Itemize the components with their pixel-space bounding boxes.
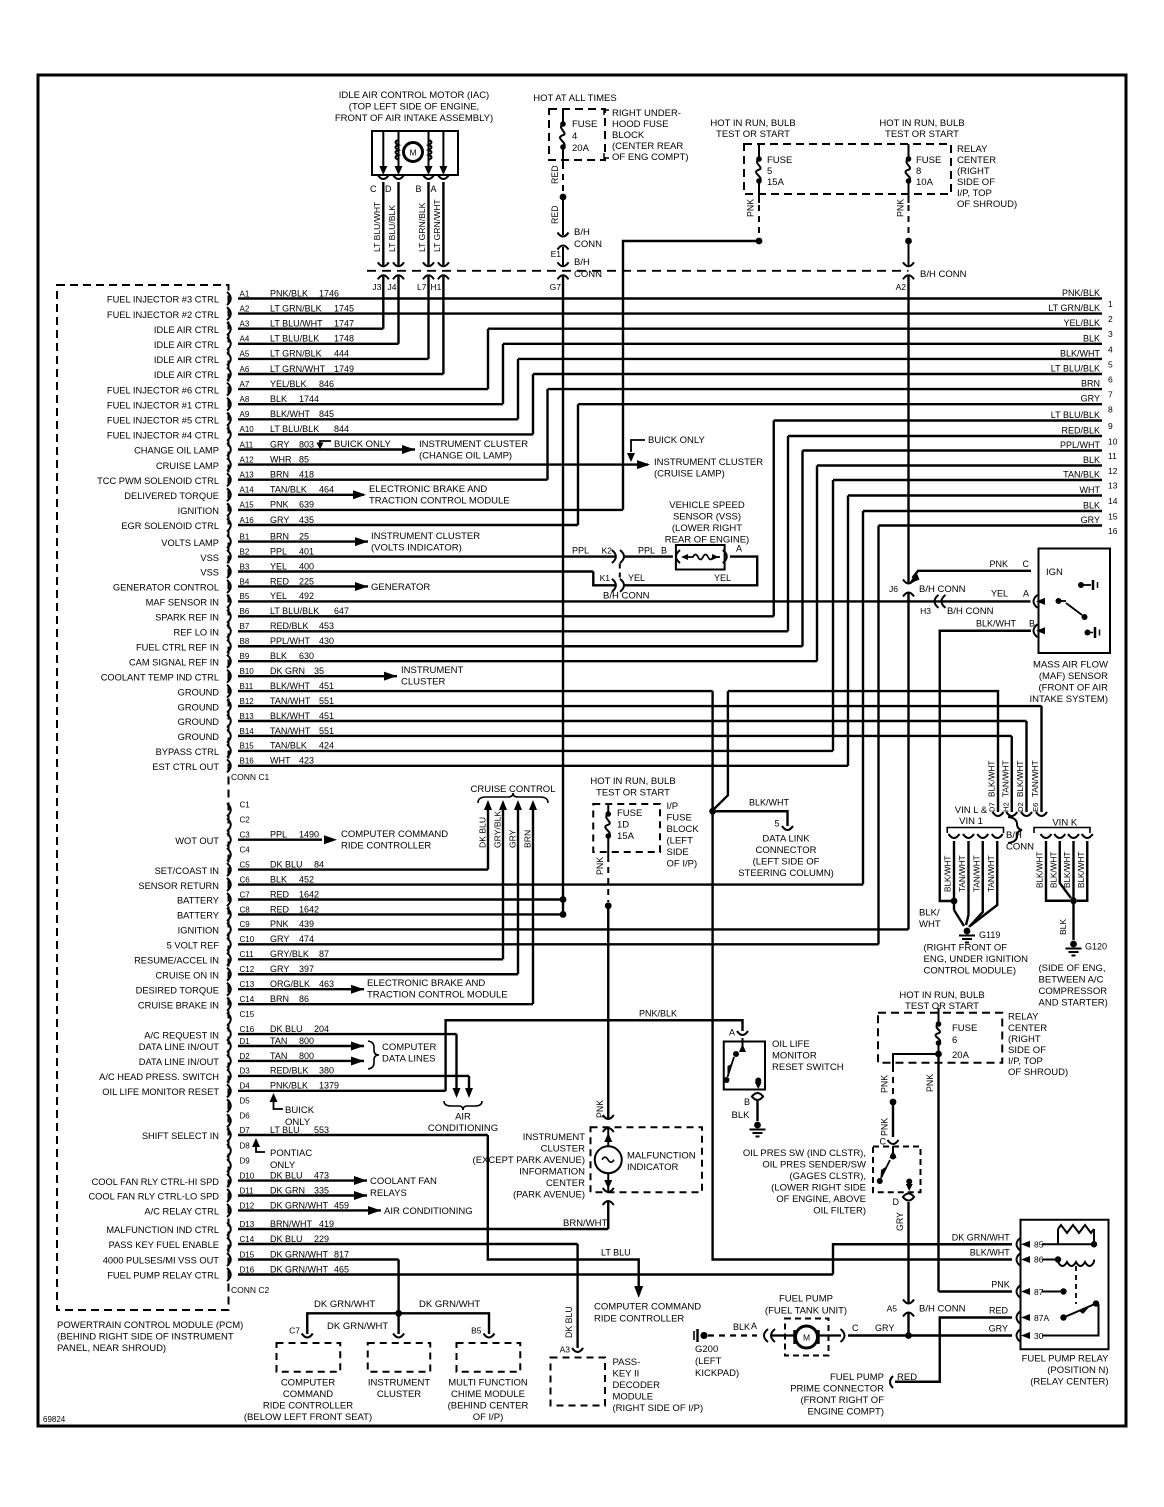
PCM pin B6 SPARK REF IN <box>227 610 231 623</box>
svg-text:BUICK ONLY: BUICK ONLY <box>334 439 392 450</box>
PCM pin B15 BYPASS CTRL <box>227 744 231 757</box>
svg-text:(RIGHT FRONT OF: (RIGHT FRONT OF <box>924 943 1008 954</box>
arrow ccrc C3 <box>324 835 337 844</box>
svg-text:A13: A13 <box>240 471 255 480</box>
svg-text:PASS KEY FUEL ENABLE: PASS KEY FUEL ENABLE <box>109 1240 219 1250</box>
pump input arcs <box>764 1329 768 1342</box>
svg-text:(TOP LEFT SIDE OF ENGINE,: (TOP LEFT SIDE OF ENGINE, <box>349 102 479 113</box>
svg-text:844: 844 <box>334 424 349 434</box>
svg-text:D11: D11 <box>240 1186 255 1195</box>
off-page wire 14 WHT <box>848 494 1102 496</box>
svg-text:M: M <box>803 1333 810 1343</box>
PCM pin A7 FUEL INJECTOR #6 CTRL <box>227 383 231 396</box>
pump output arc C <box>817 1334 841 1336</box>
svg-text:LT BLU/WHT: LT BLU/WHT <box>270 319 323 329</box>
riser A9 to line5 <box>517 359 519 419</box>
svg-text:I/P: I/P <box>667 801 679 812</box>
svg-text:551: 551 <box>319 726 334 736</box>
svg-text:OIL LIFE MONITOR RESET: OIL LIFE MONITOR RESET <box>102 1087 219 1097</box>
svg-text:GRY: GRY <box>270 439 289 449</box>
svg-text:(VOLTS INDICATOR): (VOLTS INDICATOR) <box>371 543 462 554</box>
svg-text:FUSE: FUSE <box>952 1023 977 1034</box>
junction dot fuse6 branch <box>890 1099 897 1106</box>
PCM pin D3 A/C HEAD PRESS. SWITCH <box>227 1069 231 1082</box>
svg-text:401: 401 <box>299 546 314 556</box>
svg-text:DK GRN/WHT: DK GRN/WHT <box>419 1299 480 1310</box>
svg-text:2: 2 <box>1108 314 1113 324</box>
svg-text:VSS: VSS <box>200 553 219 563</box>
svg-text:KICKPAD): KICKPAD) <box>695 1368 739 1379</box>
svg-text:PNK: PNK <box>270 919 289 929</box>
wire PNK fuse8 dashed <box>908 205 910 236</box>
svg-text:CONDITIONING: CONDITIONING <box>428 1123 498 1134</box>
svg-text:204: 204 <box>314 1024 329 1034</box>
svg-text:13: 13 <box>1108 481 1118 491</box>
svg-text:INFORMATION: INFORMATION <box>519 1167 585 1178</box>
PCM pin B7 REF LO IN <box>227 625 231 638</box>
svg-text:C11: C11 <box>240 950 255 959</box>
svg-text:FUSE: FUSE <box>767 155 792 166</box>
svg-text:BLK: BLK <box>1083 455 1100 465</box>
PCM pin D11 COOL FAN RLY CTRL-LO SPD <box>227 1189 231 1202</box>
svg-text:SPARK REF IN: SPARK REF IN <box>155 613 219 623</box>
PCM pin A2 FUEL INJECTOR #2 CTRL <box>227 307 231 320</box>
svg-text:C6: C6 <box>240 875 251 884</box>
PCM pin C4 n/c <box>227 848 231 861</box>
svg-text:1: 1 <box>1108 299 1113 309</box>
PCM pin C6 SENSOR RETURN <box>227 878 231 891</box>
malfunction bulb <box>595 1146 622 1173</box>
svg-text:(BEHIND CENTER: (BEHIND CENTER <box>448 1401 529 1412</box>
svg-text:C7: C7 <box>240 890 251 899</box>
svg-text:84: 84 <box>314 859 324 869</box>
svg-text:PNK/BLK: PNK/BLK <box>270 288 308 298</box>
wire YEL VSS loop <box>625 557 758 586</box>
svg-text:CRUISE ON IN: CRUISE ON IN <box>155 970 219 980</box>
svg-text:DK BLU: DK BLU <box>270 859 303 869</box>
svg-text:C4: C4 <box>240 845 251 854</box>
svg-text:DK BLU: DK BLU <box>270 1024 303 1034</box>
svg-text:AND STARTER): AND STARTER) <box>1039 998 1108 1009</box>
svg-text:IGNITION: IGNITION <box>178 506 219 516</box>
chime dashed box <box>457 1343 521 1372</box>
svg-text:(POSITION N): (POSITION N) <box>1047 1365 1108 1376</box>
svg-text:I/P, TOP: I/P, TOP <box>957 188 992 199</box>
svg-text:A/C REQUEST IN: A/C REQUEST IN <box>144 1030 219 1040</box>
svg-text:ORG/BLK: ORG/BLK <box>270 979 310 989</box>
svg-text:A: A <box>729 1028 735 1038</box>
svg-text:EGR SOLENOID CTRL: EGR SOLENOID CTRL <box>121 521 219 531</box>
ground oil life switch <box>754 1122 761 1129</box>
svg-text:INDICATOR: INDICATOR <box>627 1162 679 1173</box>
PCM pin B11 GROUND <box>227 685 231 698</box>
svg-text:69824: 69824 <box>43 1415 66 1424</box>
svg-text:B1: B1 <box>240 532 250 541</box>
svg-text:BLK/WHT: BLK/WHT <box>1077 852 1086 888</box>
G200 dot <box>700 1332 707 1339</box>
svg-text:TAN/BLK: TAN/BLK <box>1063 470 1100 480</box>
svg-text:BRN: BRN <box>270 994 289 1004</box>
svg-text:PNK: PNK <box>270 500 289 510</box>
PCM pin C7 BATTERY <box>227 893 231 906</box>
svg-text:MODULE: MODULE <box>613 1392 654 1403</box>
svg-text:FUEL INJECTOR #4 CTRL: FUEL INJECTOR #4 CTRL <box>107 431 219 441</box>
VSS coil symbol <box>686 555 720 560</box>
svg-text:FUSE: FUSE <box>916 155 941 166</box>
prime connector arc <box>890 1376 893 1388</box>
svg-text:SENSOR RETURN: SENSOR RETURN <box>138 881 219 891</box>
PCM pin D8 n/c <box>227 1144 231 1157</box>
svg-text:B/H: B/H <box>574 227 590 238</box>
svg-text:335: 335 <box>314 1185 329 1195</box>
junction dot DLC ground <box>709 808 716 815</box>
svg-text:EST CTRL OUT: EST CTRL OUT <box>152 762 219 772</box>
wire D16 to relay 85 <box>238 1244 1012 1274</box>
svg-text:35: 35 <box>314 666 324 676</box>
wire GRY oil pres down <box>907 1202 909 1303</box>
svg-text:BRN: BRN <box>270 470 289 480</box>
svg-text:LT GRN/BLK: LT GRN/BLK <box>1048 303 1100 313</box>
svg-text:PPL: PPL <box>638 546 655 556</box>
svg-text:1642: 1642 <box>299 904 319 914</box>
svg-text:D7: D7 <box>240 1126 251 1135</box>
wire C16 drop <box>455 1034 457 1088</box>
relay center dashed box <box>744 144 951 194</box>
svg-text:LT GRN/WHT: LT GRN/WHT <box>432 199 442 252</box>
svg-text:TAN/WHT: TAN/WHT <box>1001 760 1010 797</box>
svg-text:FUEL PUMP: FUEL PUMP <box>830 1372 884 1383</box>
svg-text:DK GRN/WHT: DK GRN/WHT <box>314 1299 375 1310</box>
svg-text:BLK/WHT: BLK/WHT <box>270 711 311 721</box>
svg-text:LT GRN/BLK: LT GRN/BLK <box>417 202 427 252</box>
oil life switch arm <box>742 1038 744 1052</box>
svg-text:TAN/WHT: TAN/WHT <box>270 696 311 706</box>
connector K1 break <box>612 579 616 592</box>
svg-text:492: 492 <box>299 591 314 601</box>
svg-text:TAN/BLK: TAN/BLK <box>270 485 307 495</box>
svg-text:845: 845 <box>319 409 334 419</box>
svg-text:(SIDE OF ENG,: (SIDE OF ENG, <box>1039 963 1106 974</box>
svg-text:4: 4 <box>1108 344 1113 354</box>
wire GRY pump to relay 30 <box>848 1334 1012 1336</box>
svg-text:(RIGHT SIDE OF I/P): (RIGHT SIDE OF I/P) <box>613 1403 704 1414</box>
svg-text:803: 803 <box>299 439 314 449</box>
svg-text:C3: C3 <box>240 831 251 840</box>
svg-text:GROUND: GROUND <box>178 687 220 697</box>
wire B14 to H2 <box>238 736 1012 812</box>
wire B11 drop diagonal <box>714 691 728 809</box>
MAF switch contacts <box>1056 598 1062 604</box>
svg-text:(RELAY CENTER): (RELAY CENTER) <box>1030 1377 1108 1388</box>
svg-text:HOT IN RUN, BULB: HOT IN RUN, BULB <box>879 118 964 129</box>
svg-text:B/H: B/H <box>1006 830 1022 841</box>
svg-text:IDLE AIR CTRL: IDLE AIR CTRL <box>154 340 219 350</box>
svg-text:PNK: PNK <box>880 1075 890 1093</box>
svg-text:PNK: PNK <box>989 559 1008 569</box>
svg-text:WHT: WHT <box>919 919 941 930</box>
svg-text:A: A <box>751 1321 757 1331</box>
svg-text:YEL: YEL <box>714 573 731 583</box>
svg-text:GRY: GRY <box>1081 394 1100 404</box>
PCM pin C8 BATTERY <box>227 908 231 921</box>
svg-text:RED: RED <box>550 165 560 184</box>
svg-text:A8: A8 <box>240 395 250 404</box>
malfunction wire arrows <box>607 1129 609 1146</box>
PCM pin B5 MAF SENSOR IN <box>227 595 231 608</box>
VIN1 group wire arcs and labels <box>949 834 960 838</box>
svg-text:INSTRUMENT: INSTRUMENT <box>523 1132 585 1143</box>
svg-text:CONN C1: CONN C1 <box>231 772 270 782</box>
cluster dashed box <box>368 1343 431 1372</box>
svg-text:C9: C9 <box>240 920 251 929</box>
B/H CONN brace <box>1008 817 1022 843</box>
fuse 1D symbol <box>607 804 609 812</box>
svg-text:BATTERY: BATTERY <box>177 896 219 906</box>
svg-text:419: 419 <box>319 1219 334 1229</box>
svg-text:BRN/WHT: BRN/WHT <box>270 1219 312 1229</box>
svg-text:CONN C2: CONN C2 <box>231 1285 270 1295</box>
svg-text:D: D <box>385 184 392 194</box>
svg-text:PPL: PPL <box>270 546 287 556</box>
IAC internal coils <box>396 140 399 160</box>
svg-text:GRY: GRY <box>270 964 289 974</box>
svg-text:B14: B14 <box>240 727 255 736</box>
svg-text:(FUEL TANK UNIT): (FUEL TANK UNIT) <box>765 1306 847 1317</box>
svg-text:TAN/BLK: TAN/BLK <box>270 741 307 751</box>
svg-text:(FRONT OF AIR: (FRONT OF AIR <box>1039 683 1109 694</box>
svg-text:GRY/BLK: GRY/BLK <box>270 949 309 959</box>
svg-text:C7: C7 <box>289 1326 300 1336</box>
PCM pin B16 EST CTRL OUT <box>227 759 231 772</box>
svg-text:D2: D2 <box>1016 802 1025 812</box>
arrow ETC module C13 <box>351 985 364 994</box>
svg-text:B9: B9 <box>240 652 250 661</box>
svg-text:418: 418 <box>299 470 314 480</box>
svg-text:WHT: WHT <box>270 756 291 766</box>
svg-text:1744: 1744 <box>299 394 319 404</box>
svg-text:BLK/WHT: BLK/WHT <box>1060 348 1101 358</box>
fuel pump motor <box>796 1326 818 1348</box>
svg-text:YEL: YEL <box>628 573 645 583</box>
svg-text:(PARK AVENUE): (PARK AVENUE) <box>513 1190 585 1201</box>
svg-text:FUSE: FUSE <box>572 119 597 130</box>
svg-text:A5: A5 <box>240 350 250 359</box>
svg-text:LT BLU/BLK: LT BLU/BLK <box>270 424 319 434</box>
svg-text:GRY: GRY <box>895 1212 905 1231</box>
cluster input arc <box>393 1334 404 1338</box>
wire B11 to DLC junction <box>711 691 713 811</box>
malfunction dashed box <box>591 1127 703 1192</box>
svg-text:D2: D2 <box>240 1052 251 1061</box>
svg-text:TEST OR START: TEST OR START <box>905 1001 979 1012</box>
svg-text:B/H CONN: B/H CONN <box>947 606 994 617</box>
svg-text:444: 444 <box>334 349 349 359</box>
svg-text:D7: D7 <box>988 802 997 812</box>
svg-text:COMPRESSOR: COMPRESSOR <box>1039 986 1108 997</box>
PCM pin D13 MALFUNCTION IND CTRL <box>227 1223 231 1236</box>
svg-text:B4: B4 <box>240 577 250 586</box>
svg-text:CLUSTER: CLUSTER <box>541 1144 585 1155</box>
svg-text:B11: B11 <box>240 682 254 691</box>
svg-text:473: 473 <box>314 1170 329 1180</box>
svg-text:GRY: GRY <box>1081 515 1100 525</box>
svg-text:B: B <box>415 184 421 194</box>
svg-text:COOL FAN RLY CTRL-HI SPD: COOL FAN RLY CTRL-HI SPD <box>92 1177 220 1187</box>
svg-text:A15: A15 <box>240 501 255 510</box>
svg-text:BRN: BRN <box>523 830 533 848</box>
off-page wire 10 RED/BLK <box>788 435 1102 437</box>
svg-text:FUEL CTRL REF IN: FUEL CTRL REF IN <box>136 642 219 652</box>
svg-text:E6: E6 <box>1031 803 1040 812</box>
svg-text:C: C <box>1023 559 1030 569</box>
svg-text:A4: A4 <box>240 335 250 344</box>
VSS output arc A <box>723 550 727 563</box>
junction dot C8 battery <box>560 911 567 918</box>
junction dot MAF ground <box>951 898 958 905</box>
connector K2 break <box>612 550 616 563</box>
svg-text:HOOD FUSE: HOOD FUSE <box>612 119 668 130</box>
PCM pin A1 FUEL INJECTOR #3 CTRL <box>227 292 231 305</box>
svg-text:465: 465 <box>334 1264 349 1274</box>
bulkhead break A2 <box>903 262 914 266</box>
cruise risers with up arrows <box>487 806 489 870</box>
svg-text:439: 439 <box>299 919 314 929</box>
PCM pin A15 IGNITION <box>227 503 231 516</box>
wire RED fuse4 dashed segment <box>562 163 564 193</box>
wire B11 right segment <box>728 691 998 812</box>
svg-text:MULTI FUNCTION: MULTI FUNCTION <box>448 1378 528 1389</box>
junction dot fuse1D <box>605 902 612 909</box>
svg-text:A9: A9 <box>240 410 250 419</box>
bulkhead break A5 <box>903 1300 914 1304</box>
svg-text:BRN/WHT: BRN/WHT <box>563 1218 608 1229</box>
riser A13 to line7 <box>546 389 548 480</box>
svg-text:A1: A1 <box>240 289 250 298</box>
svg-text:AIR: AIR <box>455 1112 471 1123</box>
svg-text:RELAYS: RELAYS <box>370 1188 407 1199</box>
svg-text:1747: 1747 <box>334 319 354 329</box>
svg-text:D10: D10 <box>240 1171 255 1180</box>
svg-text:87: 87 <box>319 949 329 959</box>
svg-text:25: 25 <box>299 531 309 541</box>
svg-text:MONITOR: MONITOR <box>772 1051 817 1062</box>
svg-text:J6: J6 <box>889 584 898 594</box>
svg-text:DK GRN: DK GRN <box>270 1185 305 1195</box>
svg-text:PNK: PNK <box>925 1074 935 1092</box>
junction dot GRY <box>905 1332 912 1339</box>
svg-text:INSTRUMENT CLUSTER: INSTRUMENT CLUSTER <box>419 439 528 450</box>
svg-text:CONN: CONN <box>1006 842 1034 853</box>
svg-text:FUSE: FUSE <box>667 813 692 824</box>
svg-text:K2: K2 <box>602 546 613 556</box>
svg-text:A16: A16 <box>240 516 255 525</box>
svg-text:ENG, UNDER IGNITION: ENG, UNDER IGNITION <box>924 954 1029 965</box>
svg-text:DECODER: DECODER <box>613 1380 661 1391</box>
svg-text:TEST OR START: TEST OR START <box>885 129 959 140</box>
svg-text:452: 452 <box>299 874 314 884</box>
PCM pin C10 5 VOLT REF <box>227 938 231 951</box>
svg-text:H2: H2 <box>1001 802 1010 812</box>
svg-text:PNK/BLK: PNK/BLK <box>1062 288 1100 298</box>
svg-text:ONLY: ONLY <box>285 1117 311 1128</box>
svg-text:B5: B5 <box>471 1326 482 1336</box>
svg-text:639: 639 <box>299 500 314 510</box>
svg-text:11: 11 <box>1108 451 1117 461</box>
PCM dashed connector box <box>57 285 229 1310</box>
svg-text:TAN/WHT: TAN/WHT <box>972 855 981 892</box>
oil life monitor switch box <box>724 1042 765 1090</box>
svg-text:CONN: CONN <box>574 239 602 250</box>
svg-text:(LOWER RIGHT SIDE: (LOWER RIGHT SIDE <box>771 1183 866 1194</box>
svg-text:CONNECTOR: CONNECTOR <box>755 845 816 856</box>
svg-text:KEY II: KEY II <box>613 1369 640 1380</box>
svg-text:D3: D3 <box>240 1067 251 1076</box>
svg-text:IDLE AIR CONTROL MOTOR (IAC): IDLE AIR CONTROL MOTOR (IAC) <box>339 90 489 101</box>
svg-text:D: D <box>893 1197 900 1207</box>
svg-text:OF ENG COMPT): OF ENG COMPT) <box>612 152 689 163</box>
PCM pin D5 n/c <box>227 1099 231 1112</box>
svg-text:(EXCEPT PARK AVENUE): (EXCEPT PARK AVENUE) <box>473 1155 585 1166</box>
svg-text:16: 16 <box>1108 526 1118 536</box>
PCM pin C5 SET/COAST IN <box>227 863 231 876</box>
svg-text:COOL FAN RLY CTRL-LO SPD: COOL FAN RLY CTRL-LO SPD <box>88 1192 219 1202</box>
wire fuse6 to 87 <box>939 1290 1013 1292</box>
svg-text:10: 10 <box>1108 437 1118 447</box>
svg-text:OIL PRES SENDER/SW: OIL PRES SENDER/SW <box>762 1160 866 1171</box>
bulkhead break E1 <box>558 233 569 237</box>
svg-text:D12: D12 <box>240 1201 255 1210</box>
svg-text:5: 5 <box>1108 359 1113 369</box>
svg-text:DK GRN/WHT: DK GRN/WHT <box>952 1233 1010 1243</box>
svg-text:PNK: PNK <box>746 199 756 217</box>
wire to G7 <box>562 247 564 265</box>
svg-text:OF SHROUD): OF SHROUD) <box>1008 1067 1068 1078</box>
PCM pin D14 PASS KEY FUEL ENABLE <box>227 1238 231 1251</box>
svg-text:7: 7 <box>1108 390 1113 400</box>
svg-text:DESIRED TORQUE: DESIRED TORQUE <box>136 985 219 995</box>
svg-text:B/H CONN: B/H CONN <box>603 591 650 602</box>
riser line16 to C10 <box>877 526 879 945</box>
fuse 4 dashed box <box>549 109 605 160</box>
svg-text:BLK/WHT: BLK/WHT <box>1049 852 1058 888</box>
wire PNK fuse6 main down <box>937 1054 939 1292</box>
svg-text:225: 225 <box>299 576 314 586</box>
svg-text:INTAKE SYSTEM): INTAKE SYSTEM) <box>1030 694 1108 705</box>
PCM pin D15 4000 PULSES/MI VSS OUT <box>227 1253 231 1266</box>
bulkhead break J6 <box>903 580 914 584</box>
svg-text:BLK: BLK <box>1083 333 1100 343</box>
svg-text:INSTRUMENT: INSTRUMENT <box>401 665 463 676</box>
svg-text:J3: J3 <box>372 282 381 292</box>
svg-text:VSS: VSS <box>200 568 219 578</box>
svg-text:3: 3 <box>1108 329 1113 339</box>
svg-text:9: 9 <box>1108 421 1113 431</box>
svg-text:15: 15 <box>1108 512 1118 522</box>
off-page wire 4 BLK <box>503 343 1102 345</box>
malfunction output arcs <box>603 1188 614 1192</box>
PCM pin A11 CHANGE OIL LAMP <box>227 443 231 456</box>
svg-text:CLUSTER: CLUSTER <box>377 1389 421 1400</box>
svg-text:SENSOR (VSS): SENSOR (VSS) <box>673 512 741 523</box>
PCM pin C13 DESIRED TORQUE <box>227 983 231 996</box>
svg-text:GRY: GRY <box>270 515 289 525</box>
svg-text:CHANGE OIL LAMP: CHANGE OIL LAMP <box>134 446 219 456</box>
svg-text:6: 6 <box>952 1035 957 1046</box>
svg-text:L7: L7 <box>417 282 427 292</box>
svg-text:87A: 87A <box>1034 1313 1049 1323</box>
svg-text:BLK/WHT: BLK/WHT <box>749 798 790 808</box>
svg-text:DATA LINE IN/OUT: DATA LINE IN/OUT <box>139 1057 220 1067</box>
